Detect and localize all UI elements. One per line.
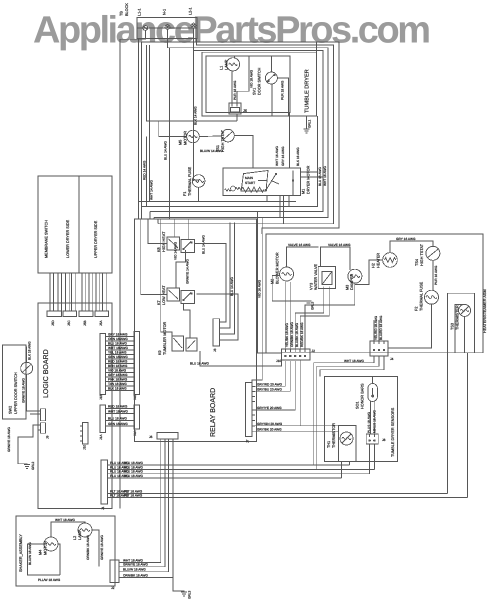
bus h206 bbox=[142, 206, 290, 208]
svg-text:BLU 18 AWG: BLU 18 AWG bbox=[108, 417, 127, 421]
connector J1 bbox=[101, 460, 110, 510]
wire SW1 top stub bbox=[270, 56, 272, 72]
svg-text:BLU/W 18 AWG: BLU/W 18 AWG bbox=[123, 568, 146, 572]
svg-text:J3: J3 bbox=[213, 348, 217, 352]
J1 bus wire 1 bbox=[108, 461, 350, 465]
connector J1A bbox=[99, 405, 106, 440]
svg-text:BLU 14 AWG: BLU 14 AWG bbox=[164, 141, 168, 160]
wire L1 trunk down bbox=[139, 30, 146, 219]
svg-text:LOWER DRYER SIDE: LOWER DRYER SIDE bbox=[66, 219, 70, 258]
svg-text:BLU 18 AWG: BLU 18 AWG bbox=[108, 342, 127, 346]
relay K9 TUMBLER MOTOR bbox=[158, 321, 197, 355]
wire lamp top bbox=[234, 56, 236, 58]
thermister TS3 box bbox=[448, 293, 475, 353]
svg-text:SV1: SV1 bbox=[253, 88, 257, 95]
wire TS4 to F2 bbox=[433, 260, 438, 290]
svg-text:BLU 16 AWG: BLU 16 AWG bbox=[318, 167, 322, 186]
shaker lamp L2 bbox=[73, 523, 92, 540]
svg-text:WHT 18 AWG: WHT 18 AWG bbox=[108, 410, 128, 414]
J1 bus wire 6 bbox=[108, 494, 468, 498]
ground GRL3 bbox=[173, 578, 192, 600]
svg-text:UPPER DRYER SIDE: UPPER DRYER SIDE bbox=[94, 220, 98, 258]
relay K7 LOW HEAT bbox=[157, 285, 195, 305]
svg-text:GRY 18 AWG: GRY 18 AWG bbox=[108, 373, 128, 377]
svg-text:J5D: J5D bbox=[51, 320, 55, 326]
svg-text:MOTOR: MOTOR bbox=[184, 131, 188, 145]
svg-text:MEMBRANE SWITCH: MEMBRANE SWITCH bbox=[45, 220, 49, 258]
J1 bus wire 3 bbox=[108, 444, 370, 474]
svg-text:WATER VALVE: WATER VALVE bbox=[314, 264, 318, 290]
svg-text:BLK 16 AWG: BLK 16 AWG bbox=[296, 147, 300, 166]
wire feed to J7 bbox=[252, 218, 262, 384]
svg-text:YEL 18 AWG: YEL 18 AWG bbox=[108, 351, 127, 355]
wire label BLU 14 AWG bbox=[164, 141, 168, 160]
svg-text:PUR 18 AWG: PUR 18 AWG bbox=[233, 80, 237, 100]
terminal L2 screw bbox=[189, 7, 196, 28]
relay board box bbox=[135, 219, 257, 442]
tumble dryer box bbox=[202, 42, 316, 116]
bus h223 bbox=[158, 223, 284, 225]
shaker bus wire 4 bbox=[122, 442, 174, 578]
svg-text:YEL/RD 18 AWG: YEL/RD 18 AWG bbox=[374, 315, 378, 340]
svg-text:BLU/W 14 AWG: BLU/W 14 AWG bbox=[200, 149, 223, 153]
wire sw1 right drop bbox=[277, 78, 288, 116]
svg-text:GRN/YE 18 AWG: GRN/YE 18 AWG bbox=[7, 427, 11, 452]
svg-text:GRY/GN 20 AWG: GRY/GN 20 AWG bbox=[257, 422, 283, 426]
J1B-J4B harness wires and labels bbox=[106, 333, 134, 391]
svg-text:J9: J9 bbox=[46, 435, 50, 439]
damper M3 bbox=[346, 269, 362, 290]
svg-text:K9: K9 bbox=[158, 350, 162, 355]
svg-text:J10: J10 bbox=[276, 359, 281, 363]
svg-text:SHAKER_ASSEMBLY: SHAKER_ASSEMBLY bbox=[19, 534, 23, 572]
svg-text:F2: F2 bbox=[415, 307, 419, 311]
motor bottom feeds bbox=[267, 195, 289, 223]
J2 wires up with labels bbox=[285, 300, 304, 349]
thermostat TS1 bbox=[216, 129, 234, 152]
wire L2 trunk down bbox=[194, 28, 199, 180]
svg-text:BLU 14 AWG: BLU 14 AWG bbox=[230, 277, 234, 296]
wire label BLK SLV bbox=[194, 106, 198, 125]
shaker bus wire 3 bbox=[122, 442, 169, 572]
wire label RED 14 AWG bbox=[143, 160, 147, 180]
svg-text:H2: H2 bbox=[372, 263, 376, 268]
wire valve top bbox=[321, 243, 351, 270]
J1A-J4A harness wires and labels bbox=[106, 405, 134, 427]
svg-text:J1: J1 bbox=[101, 506, 105, 510]
J1 bus wire 2 bbox=[108, 444, 375, 469]
svg-text:HIGH TSTAT: HIGH TSTAT bbox=[420, 243, 424, 266]
svg-text:PUR 16 AWG: PUR 16 AWG bbox=[434, 265, 438, 285]
svg-text:ORN/BK 18 AWG: ORN/BK 18 AWG bbox=[290, 322, 294, 347]
svg-text:MOTOR: MOTOR bbox=[44, 541, 48, 555]
svg-text:GRY/RD 20 AWG: GRY/RD 20 AWG bbox=[257, 382, 282, 386]
svg-text:BLK 18 AWG: BLK 18 AWG bbox=[108, 387, 127, 391]
svg-text:BLK 14 AWG: BLK 14 AWG bbox=[194, 106, 198, 125]
thermistor TH1 box bbox=[327, 423, 356, 462]
svg-text:L1-1: L1-1 bbox=[138, 8, 142, 16]
wire TS3 bottom legs bbox=[455, 304, 465, 352]
thermal fuse F1 bbox=[183, 166, 205, 196]
dryer motor M1 box bbox=[223, 165, 311, 195]
svg-text:SW2: SW2 bbox=[9, 406, 13, 414]
wire motor label GRY 16 AWG bbox=[281, 146, 285, 166]
thermostat TS4 bbox=[415, 243, 440, 266]
M1 thermal protector bbox=[225, 186, 242, 191]
connector J6 bbox=[229, 103, 247, 114]
wire top outer routing bbox=[142, 42, 339, 234]
membrane ribbon legs bbox=[50, 273, 106, 311]
wire lamp loop to J6 bbox=[237, 56, 249, 103]
wire sw1 bottom loop bbox=[271, 84, 273, 116]
svg-text:WHT 14 AWG: WHT 14 AWG bbox=[150, 180, 154, 200]
svg-text:J4A: J4A bbox=[133, 430, 137, 436]
svg-text:PLUS 18 AWG: PLUS 18 AWG bbox=[367, 412, 371, 433]
svg-text:J7: J7 bbox=[246, 439, 250, 443]
svg-text:J4: J4 bbox=[390, 357, 394, 361]
ground GRL2 bbox=[7, 427, 35, 470]
svg-text:THERMAL FUSE: THERMAL FUSE bbox=[188, 166, 192, 196]
J4 wires down-left bbox=[314, 356, 384, 469]
svg-text:BLK 18 AWG: BLK 18 AWG bbox=[28, 341, 32, 360]
wire N branch routing right bbox=[168, 48, 329, 218]
bus h201 bbox=[139, 201, 296, 203]
svg-text:M5: M5 bbox=[179, 140, 183, 145]
wire label WHT 14 AWG bbox=[150, 180, 154, 200]
ground GRL5 bbox=[305, 301, 314, 310]
svg-text:PLL/W 18 AWG: PLL/W 18 AWG bbox=[38, 578, 61, 582]
lamp L1 bbox=[220, 58, 240, 71]
connector J5A bbox=[95, 311, 109, 326]
connector J2 shaker bbox=[110, 560, 122, 590]
wire SW2 to J9 bbox=[26, 346, 40, 414]
wire door switch feed bbox=[194, 51, 323, 212]
connector J5B bbox=[79, 311, 93, 326]
svg-text:J2: J2 bbox=[111, 586, 115, 590]
wire M5 to TS1 bbox=[199, 136, 223, 153]
svg-text:GRN/YE 18 AWG: GRN/YE 18 AWG bbox=[100, 535, 104, 560]
terminal block TB bbox=[120, 3, 197, 39]
svg-text:TUMBLER MOTOR: TUMBLER MOTOR bbox=[163, 321, 167, 355]
svg-text:WHT 16 AWG: WHT 16 AWG bbox=[323, 166, 327, 186]
svg-text:F1: F1 bbox=[183, 192, 187, 196]
wire J2 pin4 down bbox=[299, 360, 301, 426]
wire label vio bbox=[174, 241, 178, 260]
wire inner box to motor bbox=[289, 112, 291, 168]
svg-text:GRL2: GRL2 bbox=[31, 461, 35, 470]
svg-text:DAMPER: DAMPER bbox=[350, 273, 354, 290]
shaker bus wire 2 bbox=[122, 442, 166, 567]
svg-text:GRY/BU 20 AWG: GRY/BU 20 AWG bbox=[257, 387, 282, 391]
relay board internal feeds bbox=[141, 219, 206, 338]
wire F2 to J4 bbox=[388, 304, 432, 348]
svg-text:BRN 18 AWG: BRN 18 AWG bbox=[108, 364, 128, 368]
wire label VIO 18 AWG bbox=[249, 69, 253, 88]
terminal L1 screw bbox=[138, 8, 148, 30]
svg-text:GRY 18 AWG: GRY 18 AWG bbox=[108, 333, 128, 337]
bus h211 bbox=[150, 211, 302, 213]
svg-text:RELAY BOARD: RELAY BOARD bbox=[210, 388, 217, 437]
svg-text:J6: J6 bbox=[149, 435, 153, 439]
heater steamer box bbox=[266, 234, 487, 353]
svg-text:L2-1: L2-1 bbox=[189, 7, 193, 15]
connector J7 bbox=[246, 383, 256, 444]
svg-text:J6: J6 bbox=[243, 109, 247, 113]
connector J8 bbox=[366, 434, 385, 444]
svg-text:M3: M3 bbox=[346, 285, 350, 290]
M2 valve damper bottom wires bbox=[285, 282, 355, 349]
svg-text:TAN 18 AWG: TAN 18 AWG bbox=[108, 382, 127, 386]
shaker assembly box bbox=[16, 516, 115, 586]
logic board box bbox=[38, 303, 112, 509]
svg-text:BLU/W 18 AWG: BLU/W 18 AWG bbox=[28, 542, 32, 565]
svg-text:BLOCK: BLOCK bbox=[125, 3, 129, 16]
svg-text:N-1: N-1 bbox=[163, 9, 167, 15]
svg-text:HEATER/STEAMER ASM: HEATER/STEAMER ASM bbox=[483, 289, 487, 333]
svg-text:PLU 18 AWG: PLU 18 AWG bbox=[124, 474, 143, 478]
svg-text:J1B: J1B bbox=[99, 395, 103, 401]
svg-text:SO1: SO1 bbox=[356, 401, 360, 409]
svg-text:MAIN: MAIN bbox=[245, 176, 254, 180]
svg-text:J5A: J5A bbox=[99, 320, 103, 326]
shaker bus wires to relay J6 bbox=[122, 442, 161, 563]
connector J10/J2 bbox=[276, 349, 315, 363]
svg-text:PLT 18 AWG: PLT 18 AWG bbox=[124, 494, 143, 498]
wire to ground GRL2 bbox=[18, 425, 38, 465]
svg-text:HONOR BARS: HONOR BARS bbox=[361, 383, 365, 409]
svg-text:GRY 16 AWG: GRY 16 AWG bbox=[396, 237, 416, 241]
svg-text:TS4: TS4 bbox=[415, 259, 419, 266]
svg-text:TUMBLE DRYER: TUMBLE DRYER bbox=[305, 69, 311, 113]
wire M5 left feed bbox=[159, 121, 187, 137]
J4 wires up labels bbox=[374, 315, 383, 341]
svg-text:GRN 18 AWG: GRN 18 AWG bbox=[108, 422, 128, 426]
J3 exit wires bbox=[195, 222, 238, 340]
heater H2 bbox=[372, 253, 398, 268]
wire label BLK 16 AWG motor top bbox=[296, 147, 300, 166]
wire trunk x149.5 bbox=[149, 45, 151, 202]
svg-text:RED 18 AWG: RED 18 AWG bbox=[108, 405, 128, 409]
svg-text:GRN/YE 18 AWG: GRN/YE 18 AWG bbox=[22, 378, 26, 403]
wire H2 top to TS4 bbox=[390, 237, 433, 253]
bus h217 bbox=[154, 217, 280, 219]
svg-text:J1A: J1A bbox=[99, 434, 103, 440]
svg-text:M1: M1 bbox=[302, 189, 306, 194]
wire label WHT 16 AWG motor top bbox=[275, 146, 279, 166]
switch SW2 contact bbox=[21, 341, 33, 403]
wire vio feed down right of relay board bbox=[258, 212, 282, 354]
relay K8 HIGH HEAT bbox=[157, 231, 195, 253]
svg-text:TB: TB bbox=[120, 11, 124, 16]
svg-text:J10: J10 bbox=[83, 445, 87, 450]
connector J4A bbox=[133, 405, 139, 436]
connector J10 logic bbox=[80, 423, 88, 451]
svg-text:GRL3: GRL3 bbox=[188, 590, 192, 599]
wire N trunk down bbox=[168, 29, 170, 219]
svg-text:J5B: J5B bbox=[83, 321, 87, 327]
svg-text:RED 14 AWG: RED 14 AWG bbox=[143, 160, 147, 180]
connector J1B bbox=[99, 334, 106, 401]
wire L2 branch x196.5 routing right bbox=[197, 38, 334, 223]
connector J5D bbox=[47, 311, 62, 326]
svg-text:START: START bbox=[245, 181, 255, 185]
ground GRL1 bbox=[303, 116, 311, 133]
water valve VY3 bbox=[310, 264, 336, 290]
svg-text:DOOR SWITCH: DOOR SWITCH bbox=[258, 67, 262, 95]
svg-text:PLU 18 AWG: PLU 18 AWG bbox=[124, 461, 143, 465]
svg-text:WHT 18 AWG: WHT 18 AWG bbox=[344, 359, 364, 363]
thermistor TH1 bbox=[340, 432, 353, 445]
wire trunk x146.5 to M5 circuit bbox=[147, 45, 238, 121]
svg-text:J4B: J4B bbox=[133, 395, 137, 401]
svg-text:GRL1: GRL1 bbox=[308, 119, 312, 128]
svg-text:BLOWER MOTOR: BLOWER MOTOR bbox=[276, 252, 280, 284]
svg-text:GRY/YE 20 AWG: GRY/YE 20 AWG bbox=[257, 406, 282, 410]
thermister TS3 bbox=[459, 304, 471, 316]
svg-text:UPPER DOOR SWITCH: UPPER DOOR SWITCH bbox=[14, 372, 18, 414]
svg-text:VALVE 16 AWG: VALVE 16 AWG bbox=[328, 243, 351, 247]
connector J6 relay bottom bbox=[149, 433, 178, 442]
connector J9 bbox=[38, 409, 50, 439]
M1 centrifugal switch bbox=[258, 171, 294, 196]
wire lamp label PUR 18 AWG bbox=[233, 80, 237, 100]
svg-text:ORN/BK 18 AWG: ORN/BK 18 AWG bbox=[123, 574, 148, 578]
svg-text:GRN/YE 14 AWG: GRN/YE 14 AWG bbox=[186, 259, 190, 284]
svg-text:VY3: VY3 bbox=[310, 283, 314, 290]
connector J4 heater bbox=[370, 341, 394, 361]
svg-text:DRYER MOTOR: DRYER MOTOR bbox=[307, 165, 311, 194]
sensor SO1 bbox=[356, 377, 378, 409]
svg-text:WHT 16 AWG: WHT 16 AWG bbox=[275, 146, 279, 166]
svg-text:PNK 18 AWG: PNK 18 AWG bbox=[108, 378, 128, 382]
wire K9 to J10 BLU 16 AWG bbox=[190, 351, 282, 366]
connector J3 bbox=[213, 319, 223, 352]
watermark bbox=[33, 10, 431, 52]
svg-text:L1: L1 bbox=[220, 66, 224, 70]
SO1 wires to J8 bbox=[367, 402, 377, 435]
membrane switch box bbox=[38, 176, 112, 273]
tumble dryer inner box bbox=[206, 56, 290, 113]
svg-text:VIO 18 AWG: VIO 18 AWG bbox=[108, 369, 127, 373]
svg-text:J5C: J5C bbox=[67, 320, 71, 326]
svg-text:THERMISTOR: THERMISTOR bbox=[332, 423, 336, 448]
svg-text:PUR 18 AWG: PUR 18 AWG bbox=[281, 80, 285, 100]
connector J5C bbox=[63, 311, 77, 326]
svg-text:BLU/BK 18 AWG: BLU/BK 18 AWG bbox=[295, 323, 299, 347]
svg-text:VIO 18 AWG: VIO 18 AWG bbox=[249, 69, 253, 88]
svg-text:TUMBLE DRYER SENSORS: TUMBLE DRYER SENSORS bbox=[391, 407, 395, 457]
thermal fuse F2 bbox=[415, 281, 439, 311]
svg-text:RED 18 AWG: RED 18 AWG bbox=[108, 360, 128, 364]
wire L1 branch left down to logic area bbox=[120, 39, 139, 508]
svg-text:M4: M4 bbox=[39, 550, 43, 555]
J7 wires to sensors bbox=[255, 361, 339, 432]
svg-text:ORN/BK 18 AWG: ORN/BK 18 AWG bbox=[86, 535, 90, 560]
svg-text:LAMP: LAMP bbox=[78, 529, 82, 540]
svg-text:GRN/YE 18 AWG: GRN/YE 18 AWG bbox=[123, 563, 148, 567]
wire F1 bottom bbox=[198, 187, 200, 201]
wire J6 drop bbox=[236, 115, 238, 122]
wire lamp to J6 bbox=[231, 71, 233, 104]
svg-text:GRY/BK 20 AWG: GRY/BK 20 AWG bbox=[257, 428, 282, 432]
svg-text:MINUS 18 AWG: MINUS 18 AWG bbox=[373, 410, 377, 433]
J1 bus wire 5 bbox=[108, 490, 448, 494]
TS3 long drop wires bbox=[448, 353, 468, 498]
J1 bus wire 4 bbox=[108, 474, 342, 478]
svg-text:GRN 18 AWG: GRN 18 AWG bbox=[108, 355, 128, 359]
motor M5 bbox=[179, 130, 200, 145]
svg-text:TS3: TS3 bbox=[451, 323, 455, 330]
svg-text:BLU 16 AWG: BLU 16 AWG bbox=[190, 362, 209, 366]
svg-text:L2: L2 bbox=[73, 536, 77, 540]
M2 left wire to ground bbox=[272, 276, 308, 301]
svg-text:RED/BK 18 AWG: RED/BK 18 AWG bbox=[300, 322, 304, 347]
bus stubs into relay top bbox=[147, 137, 159, 224]
svg-text:BLU 14 AWG: BLU 14 AWG bbox=[202, 235, 206, 254]
svg-text:HIGH HEAT: HIGH HEAT bbox=[162, 231, 166, 252]
svg-text:LOGIC BOARD: LOGIC BOARD bbox=[43, 349, 50, 398]
svg-text:WHT 18 AWG: WHT 18 AWG bbox=[108, 346, 128, 350]
tumble dryer sensors box bbox=[325, 377, 398, 462]
door switch SW2 box bbox=[3, 345, 27, 419]
svg-text:THERMAL FUSE: THERMAL FUSE bbox=[420, 281, 424, 311]
svg-text:TH1: TH1 bbox=[327, 441, 331, 448]
motor right wires to routing bbox=[289, 116, 327, 207]
M1 winding block bbox=[241, 171, 268, 193]
svg-text:WHT 18 AWG: WHT 18 AWG bbox=[55, 518, 75, 522]
blower motor M2 bbox=[271, 252, 294, 284]
wire trunk x141.5 bbox=[141, 42, 143, 219]
svg-text:VALVE 16 AWG: VALVE 16 AWG bbox=[288, 243, 311, 247]
TH1 bottom wires bbox=[342, 462, 350, 479]
wire M2 top bbox=[287, 243, 319, 267]
svg-text:ORN 18 AWG: ORN 18 AWG bbox=[108, 337, 128, 341]
terminal N screw bbox=[163, 9, 170, 30]
wire TS1 right to motor box bbox=[234, 136, 253, 168]
svg-text:VIO 16 AWG: VIO 16 AWG bbox=[258, 279, 262, 298]
svg-text:GRY 16 AWG: GRY 16 AWG bbox=[281, 146, 285, 166]
shaker wiring loop bbox=[28, 518, 105, 582]
door switch SW1 bbox=[253, 67, 285, 100]
svg-text:BLU/RD 18 AWG: BLU/RD 18 AWG bbox=[379, 315, 383, 340]
svg-text:GRL5: GRL5 bbox=[311, 301, 315, 310]
svg-text:J8: J8 bbox=[382, 438, 386, 442]
shaker motor M4 bbox=[39, 537, 59, 555]
connector J4B bbox=[133, 332, 139, 401]
wire H2 left bbox=[355, 260, 383, 285]
svg-text:LAMP: LAMP bbox=[225, 59, 229, 70]
